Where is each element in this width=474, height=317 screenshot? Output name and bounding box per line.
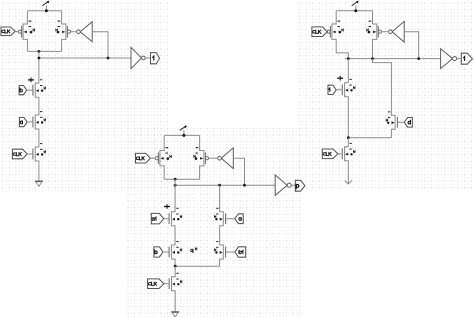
pmos M6 precharge clock (block 2) <box>155 135 171 179</box>
ground symbol (block 1) <box>35 181 43 186</box>
pmos M14 keeper (block 3) <box>367 11 382 59</box>
wire dynamic node rail (block 3) <box>345 58 441 60</box>
wire VDD rail (block 2) <box>164 134 199 136</box>
wire dynamic node rail (block 2) <box>175 184 275 186</box>
wire CLK port to M5 gate (block 1) <box>27 153 33 155</box>
wire keeper inverter output to M14 gate (block 3) <box>381 31 389 33</box>
junction drain rail / stack (block 1) <box>38 50 41 53</box>
junction keeper tap on dynamic node (block 1) <box>107 57 110 60</box>
inverter U3 keeper feedback (block 2) <box>218 148 234 169</box>
port b input (block 2) <box>154 247 163 257</box>
nmos M17 clock footer (block 3) <box>342 138 355 184</box>
wire b port to M3 gate (block 1) <box>27 89 33 91</box>
port output p (block 2) <box>295 180 305 191</box>
junction VDD / precharge rail (block 1) <box>45 9 48 12</box>
power VDD symbol (block 2) <box>180 125 187 135</box>
ground symbol (block 3) <box>345 181 352 184</box>
power VDD symbol (block 3) <box>352 0 359 10</box>
probe marker + on node (block 2) <box>164 204 170 209</box>
pmos M2 keeper (block 1) <box>56 11 71 52</box>
port CLK input (block 1 precharge) <box>1 27 15 36</box>
wire b port to M10 gate (block 2) <box>163 251 169 253</box>
nmos M4 input a (block 1) <box>33 111 46 147</box>
wire merge rail (block 3) <box>348 137 391 139</box>
wire dynamic node rail (block 1) <box>39 57 131 59</box>
wire CLK port to M1 gate bubble (block 1) <box>15 30 19 32</box>
port d input (block 3 right) <box>404 118 412 128</box>
wire M13 drain jog to dynamic node (block 3) <box>336 53 348 59</box>
port a input (block 2 right) <box>235 214 243 224</box>
wire branch merge rail (block 2) <box>175 265 219 267</box>
probe marker + on node (block 1) <box>28 78 34 83</box>
wire jog from dynamic node to right nmos drain (block 3) <box>373 59 392 116</box>
port 1 input (block 3) <box>328 85 336 94</box>
wire CLK port to M6 gate bubble (block 2) <box>150 157 155 159</box>
nmos M3 input b (block 1) <box>33 79 46 115</box>
wire CLK port to M12 gate (block 2) <box>164 283 169 285</box>
nmos M16 input d right (block 3) <box>386 111 397 137</box>
junction drain rail / stack (block 2) <box>174 178 177 181</box>
pmos M13 precharge clock (block 3) <box>327 11 343 53</box>
wire keeper inverter input from dynamic node (block 1) <box>92 32 108 58</box>
probe marker + on node (block 3) <box>337 76 343 81</box>
port CLK input (block 3 precharge) <box>312 27 327 37</box>
port output 1 (block 1) <box>151 53 160 64</box>
wire VDD rail (block 3) <box>336 10 372 12</box>
wire U4 bubble to output port (block 2) <box>292 184 295 186</box>
nmos M8 input a1 left branch (block 2) <box>169 179 182 245</box>
wire VDD rail (block 1) <box>27 10 61 12</box>
wire a port to M4 gate (block 1) <box>27 121 33 123</box>
wire left stack drain (block 3) <box>347 59 349 83</box>
port CLK input (block 1 footer) <box>12 149 27 159</box>
wire CLK port to M17 gate (block 3) <box>338 153 343 155</box>
pmos M7 keeper (block 2) <box>194 135 209 179</box>
port a input (block 1) <box>19 117 27 126</box>
junction dynamic node at left branch (block 2) <box>174 184 177 187</box>
port CLK input (block 2 footer) <box>148 279 164 289</box>
nmos M9 input a right branch (block 2) <box>214 185 225 245</box>
nmos M12 clock footer (block 2) <box>169 266 182 312</box>
junction VDD / precharge rail (block 3) <box>354 9 357 12</box>
pmos M1 precharge clock (block 1) <box>18 11 34 52</box>
nmos M15 input 1 left (block 3) <box>342 79 355 138</box>
inverter U5 keeper feedback (block 3) <box>389 21 405 42</box>
power VDD symbol (block 1) <box>42 1 49 11</box>
wire d port to M16 gate (block 3) <box>397 121 404 123</box>
wire keeper inverter output to M2 gate (block 1) <box>70 31 77 33</box>
net label q between branches (block 2) <box>192 249 194 253</box>
junction branch merge node (block 2) <box>174 265 177 268</box>
wire keeper inverter input from dynamic node (block 2) <box>233 158 244 185</box>
wire U6 bubble to output port (block 3) <box>457 58 462 60</box>
wire CLK port to M13 gate bubble (block 3) <box>326 31 328 33</box>
junction keeper tap on dynamic node (block 2) <box>243 184 246 187</box>
inverter U1 keeper feedback (block 1) <box>77 22 93 42</box>
inverter U6 output buffer (block 3) <box>441 49 457 69</box>
port b1 input (block 2 right) <box>235 247 246 257</box>
wire precharge drain rail (block 2) <box>164 178 199 180</box>
junction VDD / precharge rail (block 2) <box>182 134 185 137</box>
wire U2 bubble to output port (block 1) <box>146 57 151 59</box>
port output 1 (block 3) <box>461 53 472 64</box>
nmos M5 clock footer (block 1) <box>33 143 46 181</box>
port a1 input (block 2) <box>151 213 163 224</box>
junction dynamic node at M14 drain (block 3) <box>371 57 374 60</box>
nmos M10 input b left branch (block 2) <box>169 241 182 266</box>
junction keeper tap on dynamic node (block 3) <box>417 57 420 60</box>
wire port to M15 gate (block 3) <box>336 89 342 91</box>
wire precharge drain rail (block 1) <box>27 50 61 52</box>
port b input (block 1) <box>19 86 27 95</box>
junction dynamic node at right branch (block 2) <box>218 184 221 187</box>
junction dynamic node at stack (block 1) <box>38 57 41 60</box>
port CLK input (block 2 precharge) <box>136 153 151 163</box>
inverter U2 output buffer (block 1) <box>131 47 145 68</box>
inverter U4 output buffer (block 2) <box>275 175 291 195</box>
wire keeper inverter output to M7 gate (block 2) <box>208 157 218 159</box>
ground symbol (block 2) <box>171 312 179 317</box>
wire stack vertical drain to dynamic node (block 1) <box>38 51 40 83</box>
wire a1 port to M8 gate (block 2) <box>164 218 169 220</box>
port CLK input (block 3 footer) <box>322 149 338 159</box>
junction merge node (block 3) <box>347 136 350 139</box>
junction dynamic node at left stack (block 3) <box>347 57 350 60</box>
nmos M11 input b1 right branch (block 2) <box>214 241 225 266</box>
wire a port to M9 gate (block 2) <box>226 218 235 220</box>
wire b1 port to M11 gate (block 2) <box>226 251 235 253</box>
wire keeper inverter input from dynamic node (block 3) <box>404 32 419 59</box>
